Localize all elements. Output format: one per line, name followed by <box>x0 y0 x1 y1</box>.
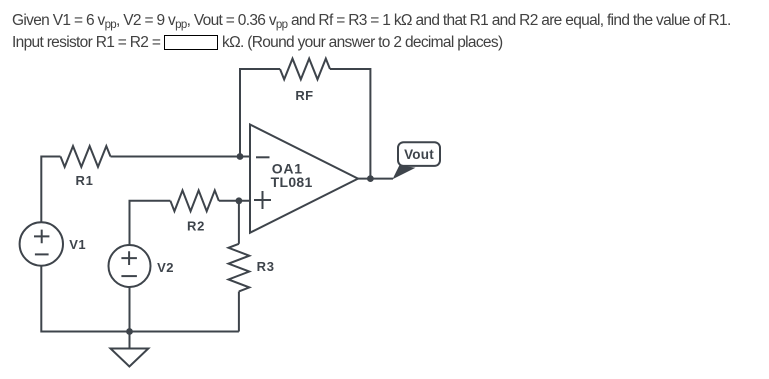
svg-text:V2: V2 <box>157 260 174 275</box>
svg-text:V1: V1 <box>69 237 86 252</box>
svg-text:RF: RF <box>295 88 313 103</box>
svg-text:R2: R2 <box>187 218 205 233</box>
svg-text:R1: R1 <box>75 173 93 188</box>
svg-text:TL081: TL081 <box>271 174 313 190</box>
svg-text:Vout: Vout <box>404 147 434 162</box>
svg-text:R3: R3 <box>257 259 275 274</box>
